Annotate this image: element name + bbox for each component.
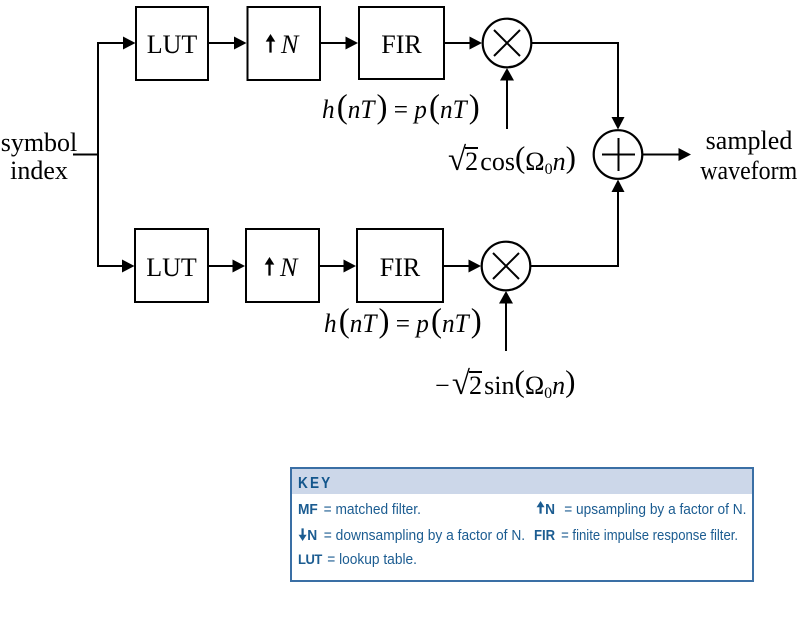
wire: UpN2 to FIR2 with arrow <box>320 260 356 273</box>
wire: LUT1 to UpN1 with arrow <box>209 37 247 50</box>
multiplier M2 circle <box>482 242 531 291</box>
label: FIR2 text <box>357 253 443 283</box>
wire: adder output arrow <box>643 148 691 161</box>
label: symbol index <box>0 129 78 185</box>
wire: symbol-index stub <box>73 154 99 156</box>
label: sampled waveform <box>684 126 800 186</box>
label: h(nT)=p(nT) top <box>322 95 480 125</box>
wire: UpN1 to FIR1 with arrow <box>321 37 358 50</box>
wire: FIR2 to multiplier2 with arrow <box>444 260 481 273</box>
wire: trunk to LUT2 with arrow <box>97 260 135 273</box>
key header band <box>292 469 752 494</box>
wire: carrier into M2 bottom, arrow up <box>499 291 513 351</box>
wire: trunk to LUT1 with arrow <box>97 37 136 50</box>
wire: carrier into M1 bottom, arrow up <box>500 68 514 129</box>
multiplier M1 circle <box>483 19 532 68</box>
label: FIR1 text <box>359 30 444 60</box>
adder circle <box>594 130 643 179</box>
label: minus sqrt2 sin carrier <box>435 371 575 403</box>
block FIR2 <box>357 229 443 302</box>
label: h(nT)=p(nT) bottom <box>324 309 482 339</box>
wire: M2 to adder corner, arrow up <box>530 180 625 267</box>
key legend box <box>290 467 754 582</box>
key row LUT <box>298 551 417 568</box>
block upsampler UpN1 <box>248 7 321 80</box>
key row upN <box>536 501 746 518</box>
key row FIR <box>534 527 738 544</box>
block LUT1 <box>136 7 208 80</box>
label: LUT2 text <box>135 253 208 283</box>
wire: LUT2 to UpN2 with arrow <box>209 260 245 273</box>
block FIR1 <box>359 7 444 79</box>
label: UpN1 text <box>245 30 318 60</box>
key row downN <box>298 527 525 544</box>
label: sqrt2 cos carrier <box>448 147 576 179</box>
wire: FIR1 to multiplier1 with arrow <box>445 37 482 50</box>
label: LUT1 text <box>136 30 208 60</box>
wire: input trunk vertical <box>97 43 99 266</box>
block upsampler UpN2 <box>246 229 319 302</box>
block LUT2 <box>135 229 208 302</box>
key row MF <box>298 501 421 518</box>
wire: M1 to adder corner <box>531 43 625 130</box>
label: UpN2 text <box>244 253 317 283</box>
